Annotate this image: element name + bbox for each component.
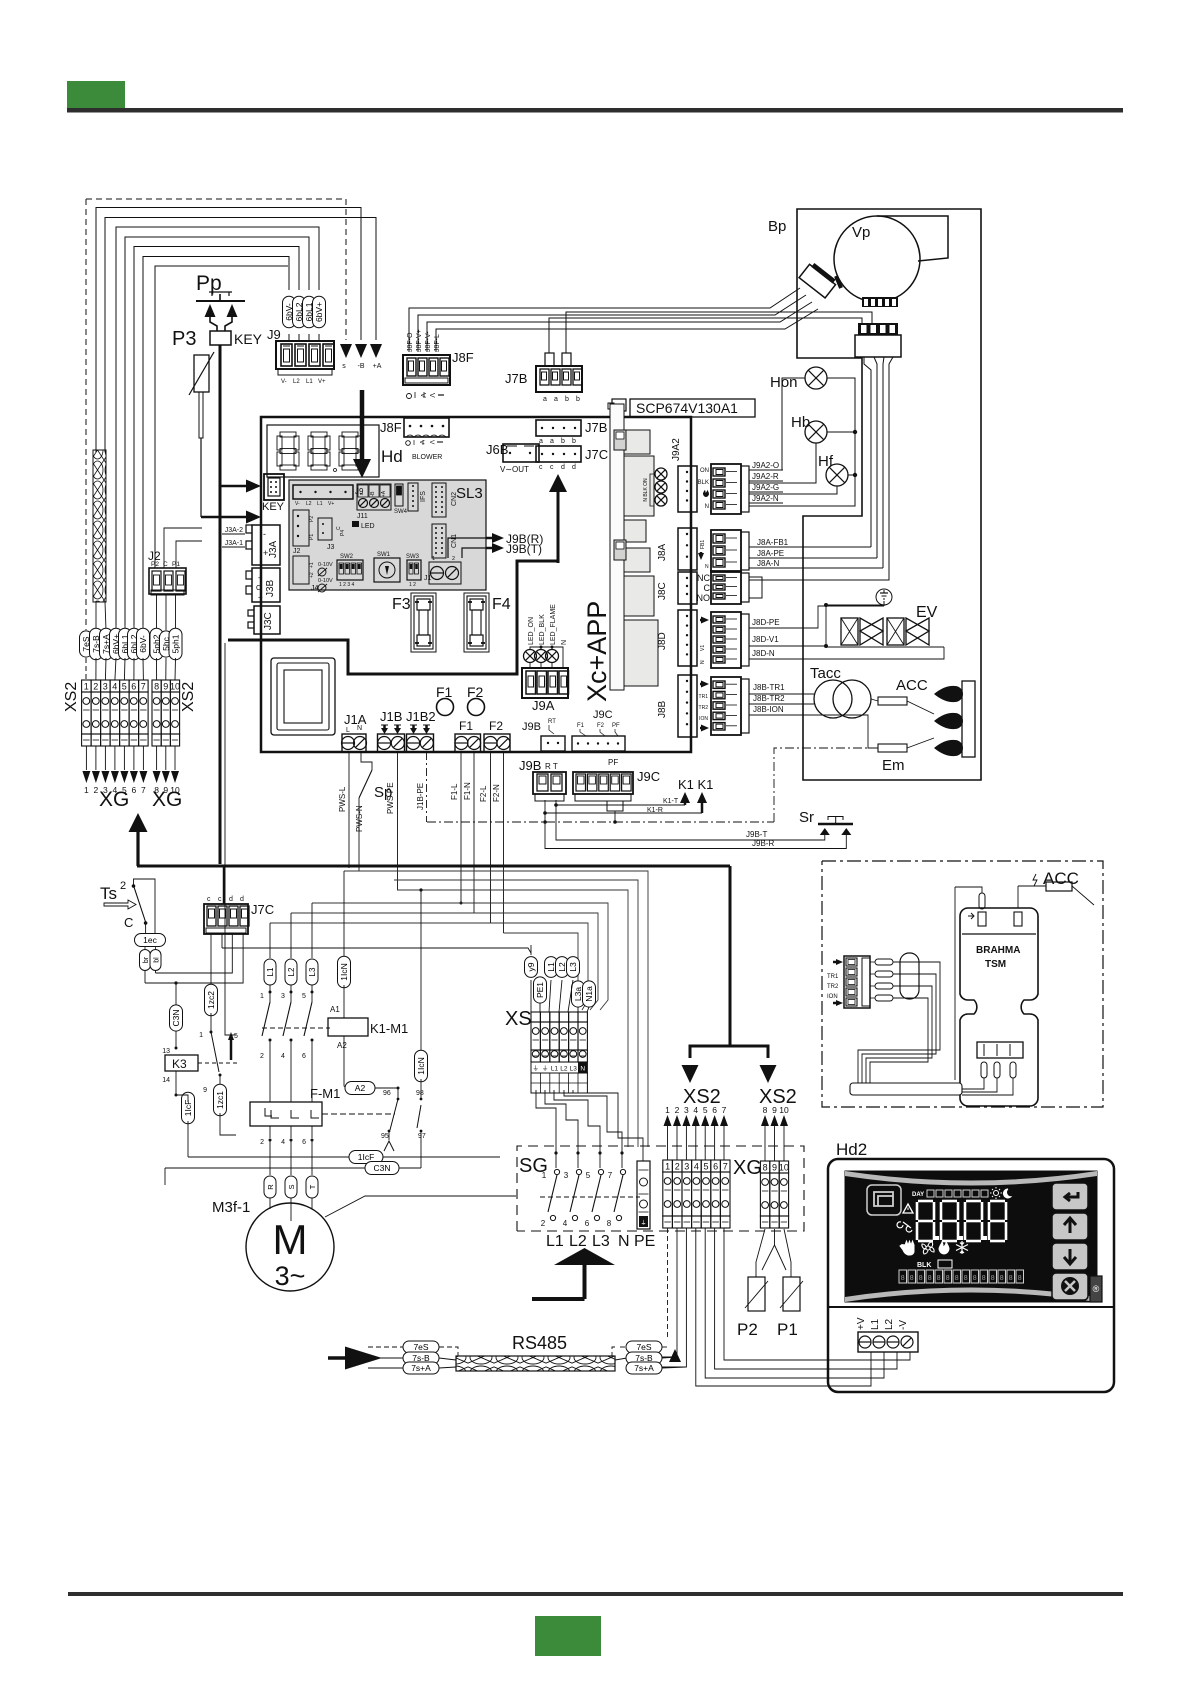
svg-text:Hf: Hf bbox=[818, 453, 834, 470]
wires J7C to K3/contactor bbox=[210, 988, 212, 991]
svg-text:2: 2 bbox=[93, 682, 98, 692]
svg-text:L: L bbox=[346, 727, 350, 734]
XG bottom group 8-10 bbox=[760, 1161, 769, 1173]
svg-text:Hb: Hb bbox=[791, 414, 810, 431]
fan inlet connector (slanted) bbox=[799, 261, 838, 298]
svg-text:S: S bbox=[287, 1184, 296, 1189]
svg-text:3: 3 bbox=[564, 1171, 569, 1180]
arrow s bbox=[340, 344, 352, 358]
J7C riser thick bbox=[223, 866, 226, 904]
svg-text:BLK: BLK bbox=[698, 480, 709, 486]
svg-text:K1-M1: K1-M1 bbox=[370, 1021, 408, 1036]
SL3 P1 P2 header (J2) bbox=[293, 510, 309, 546]
connector J8B (board edge) bbox=[678, 675, 697, 737]
svg-text:5: 5 bbox=[703, 1162, 708, 1172]
svg-text:1: 1 bbox=[432, 556, 435, 562]
svg-text:N1a: N1a bbox=[584, 986, 594, 1002]
fan lower connector block bbox=[858, 323, 898, 335]
svg-text:+V: +V bbox=[856, 1317, 867, 1330]
svg-text:-B: -B bbox=[370, 491, 376, 497]
wire 6bL1 top bundle bbox=[125, 237, 309, 625]
XS bottom wires to SG bbox=[536, 1090, 556, 1153]
svg-text:C: C bbox=[124, 915, 133, 930]
svg-text:0-10V: 0-10V bbox=[318, 578, 333, 584]
Hd digit 1 bbox=[280, 432, 296, 437]
svg-text:6bV+: 6bV+ bbox=[314, 302, 324, 322]
svg-text:N: N bbox=[700, 660, 706, 664]
oval 1zc1 bbox=[214, 1084, 227, 1116]
XG bottom group 1-7 bbox=[663, 1160, 673, 1172]
svg-text:J7B: J7B bbox=[505, 371, 527, 386]
svg-text:4: 4 bbox=[281, 1139, 285, 1146]
svg-text:d: d bbox=[229, 896, 233, 903]
svg-text:8: 8 bbox=[955, 1275, 959, 1282]
svg-text:F1: F1 bbox=[577, 723, 585, 729]
svg-text:+1: +1 bbox=[309, 562, 315, 568]
svg-text:N: N bbox=[580, 1066, 585, 1073]
svg-text:J9B(T): J9B(T) bbox=[506, 542, 542, 556]
svg-text:J3: J3 bbox=[327, 544, 335, 551]
svg-text:PE1: PE1 bbox=[535, 982, 545, 998]
P3 arrow into board bbox=[201, 516, 248, 519]
F-M1 dashed link bbox=[322, 1113, 395, 1115]
oval 6bL2 left column bbox=[133, 625, 135, 630]
svg-text:N: N bbox=[705, 504, 709, 510]
wire 7s-B top bundle bbox=[96, 208, 361, 453]
Hd digit 2 bbox=[311, 432, 327, 437]
svg-text:J4: J4 bbox=[311, 585, 319, 592]
svg-text:⏚: ⏚ bbox=[640, 1220, 646, 1227]
left XS2 group 8-10 bbox=[152, 680, 161, 692]
svg-text:V: V bbox=[428, 393, 435, 398]
svg-text:SW1: SW1 bbox=[377, 552, 391, 558]
XS strip ovals bbox=[525, 957, 538, 978]
svg-text:8: 8 bbox=[928, 1275, 932, 1282]
svg-text:P1: P1 bbox=[309, 534, 315, 540]
svg-text:c: c bbox=[218, 896, 222, 903]
svg-text:8: 8 bbox=[154, 682, 159, 692]
svg-text:L2: L2 bbox=[306, 501, 312, 507]
svg-text:LED_FLAME: LED_FLAME bbox=[550, 604, 557, 645]
svg-text:s: s bbox=[342, 363, 346, 370]
svg-text:J9A2-O: J9A2-O bbox=[752, 461, 779, 470]
svg-text:L2: L2 bbox=[884, 1318, 895, 1330]
module J8A external bbox=[711, 530, 741, 572]
svg-text:3: 3 bbox=[103, 682, 108, 692]
svg-text:1IcF: 1IcF bbox=[183, 1100, 193, 1117]
svg-text:V: V bbox=[419, 393, 426, 398]
fuse F4 bbox=[464, 593, 489, 652]
oval 1IcN right bbox=[420, 890, 422, 1053]
svg-text:d: d bbox=[572, 464, 576, 471]
svg-text:y9: y9 bbox=[526, 962, 536, 971]
oval 7s+A bbox=[105, 602, 106, 630]
label SCP674V130A1 bbox=[630, 399, 755, 417]
svg-text:1ec: 1ec bbox=[143, 935, 157, 945]
svg-text:F1: F1 bbox=[459, 719, 473, 733]
wire 6bL2 top bundle bbox=[134, 247, 299, 626]
svg-text:1: 1 bbox=[84, 785, 89, 795]
PE terminal column bbox=[637, 1161, 650, 1229]
svg-text:2: 2 bbox=[675, 1162, 680, 1172]
svg-text:4: 4 bbox=[563, 1219, 568, 1228]
svg-text:J8A: J8A bbox=[657, 543, 668, 561]
svg-text:R T: R T bbox=[545, 762, 558, 771]
Hd2 device outline bbox=[828, 1159, 1114, 1392]
SG dashed enclosure bbox=[517, 1146, 804, 1231]
svg-text:NC: NC bbox=[697, 573, 710, 583]
svg-text:1: 1 bbox=[84, 682, 89, 692]
Xc+APP column strip bbox=[610, 404, 624, 690]
svg-text:⏚: ⏚ bbox=[532, 1065, 539, 1073]
svg-text:J8D: J8D bbox=[657, 632, 668, 650]
svg-text:+2: +2 bbox=[309, 572, 315, 578]
svg-text:8: 8 bbox=[1000, 1275, 1004, 1282]
svg-text:CN1: CN1 bbox=[451, 534, 458, 548]
svg-text:3: 3 bbox=[684, 1105, 689, 1115]
Hd2 screen bezel bbox=[845, 1171, 1097, 1302]
EV wires bbox=[826, 605, 884, 646]
svg-text:BLOWER: BLOWER bbox=[412, 454, 442, 461]
svg-text:13: 13 bbox=[162, 1048, 170, 1055]
svg-text:6: 6 bbox=[713, 1162, 718, 1172]
ACC wires from connector to sleeve bbox=[858, 962, 940, 1083]
svg-text:Ts: Ts bbox=[100, 884, 117, 903]
connector J9A2 (board edge) bbox=[678, 466, 697, 512]
svg-text:ACC: ACC bbox=[896, 677, 928, 694]
svg-text:2: 2 bbox=[94, 785, 99, 795]
fan bottom pin comb bbox=[862, 297, 898, 307]
svg-text:b: b bbox=[561, 438, 565, 445]
svg-text:J1B2: J1B2 bbox=[406, 709, 436, 724]
svg-text:8: 8 bbox=[964, 1275, 968, 1282]
svg-text:ACC: ACC bbox=[1043, 869, 1079, 888]
svg-text:F2: F2 bbox=[467, 684, 484, 700]
oval 6bV- bbox=[283, 296, 296, 328]
svg-text:-B: -B bbox=[358, 363, 365, 370]
ACC connector labels bbox=[833, 961, 838, 964]
arrow up 7eS join bbox=[669, 1349, 681, 1362]
95 contact arrow bbox=[384, 1141, 394, 1151]
XG arrows below left XS2 bbox=[85, 746, 87, 770]
svg-text:XS: XS bbox=[505, 1008, 532, 1030]
svg-text:L2: L2 bbox=[560, 1066, 568, 1073]
fan motor hatch bbox=[836, 276, 841, 288]
resistor P2 bbox=[748, 1277, 765, 1311]
svg-text:L1: L1 bbox=[551, 1066, 559, 1073]
wires fan connector down bbox=[864, 357, 871, 547]
svg-text:1: 1 bbox=[542, 1171, 547, 1180]
thick bus XG to right bbox=[137, 865, 730, 868]
J7C wires down bbox=[210, 934, 212, 988]
svg-text:4: 4 bbox=[112, 682, 117, 692]
wire 6bV+ top bundle bbox=[116, 227, 319, 625]
svg-text:A2: A2 bbox=[355, 1083, 366, 1093]
connector J8D (board edge) bbox=[678, 610, 697, 666]
footer green block bbox=[535, 1616, 601, 1656]
ACC small ovals bbox=[875, 959, 893, 965]
svg-text:J7B: J7B bbox=[585, 420, 607, 435]
dashed K3 couple bbox=[198, 1062, 240, 1064]
F-M1 heater symbols bbox=[271, 1110, 279, 1118]
XG bus arrow up bbox=[136, 830, 139, 866]
svg-text:6: 6 bbox=[302, 1139, 306, 1146]
svg-text:J9A2: J9A2 bbox=[671, 438, 682, 461]
svg-text:R: R bbox=[266, 1184, 275, 1190]
svg-text:PF: PF bbox=[608, 758, 618, 767]
svg-text:DAY: DAY bbox=[912, 1192, 924, 1198]
svg-text:8: 8 bbox=[937, 1275, 941, 1282]
svg-text:L2: L2 bbox=[569, 1233, 587, 1250]
svg-text:RT: RT bbox=[548, 719, 556, 725]
svg-text:P2: P2 bbox=[309, 516, 315, 522]
J8C bracket bbox=[749, 577, 762, 598]
svg-text:5: 5 bbox=[302, 993, 306, 1000]
svg-text:8: 8 bbox=[973, 1275, 977, 1282]
svg-text:a: a bbox=[543, 396, 547, 403]
svg-text:V+: V+ bbox=[328, 501, 334, 507]
SL3 J11 screws s -B +A bbox=[357, 484, 391, 510]
svg-text:4: 4 bbox=[281, 1053, 285, 1060]
switch Sp bbox=[361, 752, 372, 770]
svg-text:d: d bbox=[561, 464, 565, 471]
svg-text:P1: P1 bbox=[777, 1320, 798, 1339]
svg-text:J1B-PE: J1B-PE bbox=[416, 783, 425, 810]
resistor P1 bbox=[783, 1277, 800, 1311]
svg-text:2: 2 bbox=[260, 1053, 264, 1060]
connector J7C (board) bbox=[536, 446, 581, 462]
svg-text:J8F: J8F bbox=[380, 420, 402, 435]
svg-text:J8F: J8F bbox=[452, 350, 474, 365]
svg-text:J3A-2: J3A-2 bbox=[225, 527, 243, 534]
wire 7s+A top bundle bbox=[105, 218, 376, 453]
svg-text:3~: 3~ bbox=[275, 1261, 306, 1291]
svg-text:V+: V+ bbox=[318, 379, 326, 385]
svg-text:J9A: J9A bbox=[532, 698, 555, 713]
svg-text:1: 1 bbox=[665, 1162, 670, 1172]
svg-text:XG: XG bbox=[99, 788, 129, 811]
SL3 module board bbox=[289, 480, 486, 590]
svg-text:TR1: TR1 bbox=[699, 694, 709, 700]
svg-text:br: br bbox=[143, 956, 150, 963]
wire 7eS (dashed) top bundle bbox=[86, 199, 346, 340]
svg-text:2: 2 bbox=[541, 1219, 546, 1228]
svg-text:8: 8 bbox=[763, 1163, 768, 1173]
svg-text:F1: F1 bbox=[436, 684, 453, 700]
svg-text:P4: P4 bbox=[340, 530, 346, 536]
svg-text:XG: XG bbox=[152, 788, 182, 811]
XS strip wire stubs bbox=[530, 980, 532, 1012]
svg-text:Hon: Hon bbox=[770, 374, 798, 391]
svg-text:2: 2 bbox=[120, 880, 126, 892]
SL3 SW3 bbox=[407, 560, 421, 580]
connector J8A (board edge) bbox=[678, 528, 697, 570]
svg-text:8: 8 bbox=[982, 1275, 986, 1282]
svg-text:IFS: IFS bbox=[420, 491, 427, 502]
svg-text:Hd: Hd bbox=[381, 447, 403, 466]
svg-text:SW3: SW3 bbox=[406, 554, 420, 560]
svg-text:8: 8 bbox=[910, 1275, 914, 1282]
P2 P1 wires bbox=[756, 1229, 765, 1277]
svg-text:0-10V: 0-10V bbox=[318, 562, 333, 568]
main board outline bbox=[261, 417, 691, 752]
J9A2 mini lamps bbox=[655, 468, 667, 480]
svg-text:10: 10 bbox=[779, 1163, 789, 1173]
svg-text:2: 2 bbox=[452, 556, 455, 562]
svg-text:M: M bbox=[273, 1216, 308, 1263]
svg-text:T: T bbox=[308, 1184, 317, 1189]
svg-text:J3A-1: J3A-1 bbox=[225, 540, 243, 547]
svg-text:Vp: Vp bbox=[852, 224, 870, 241]
svg-text:J7C: J7C bbox=[585, 447, 608, 462]
svg-text:5: 5 bbox=[586, 1171, 591, 1180]
svg-text:BRAHMA: BRAHMA bbox=[976, 945, 1020, 956]
svg-text:+: + bbox=[258, 593, 263, 602]
J9B(R)/J9B(T) arrows bbox=[448, 538, 490, 558]
svg-text:L3: L3 bbox=[570, 1066, 578, 1073]
oval 1ec (horizontal) bbox=[135, 934, 166, 947]
svg-text:CN2: CN2 bbox=[451, 492, 458, 506]
svg-text:L1: L1 bbox=[546, 1233, 564, 1250]
svg-text:Tacc: Tacc bbox=[810, 665, 841, 682]
svg-text:L1: L1 bbox=[317, 501, 323, 507]
svg-text:1: 1 bbox=[199, 1032, 203, 1039]
svg-text:1zc1: 1zc1 bbox=[215, 1091, 225, 1109]
svg-text:F2: F2 bbox=[489, 719, 503, 733]
svg-text:c: c bbox=[539, 464, 543, 471]
svg-text:8: 8 bbox=[607, 1219, 612, 1228]
display Hd (3x 7-segment) bbox=[267, 425, 379, 477]
svg-text:F1-L: F1-L bbox=[450, 783, 459, 800]
svg-text:8: 8 bbox=[991, 1275, 995, 1282]
svg-text:Xc+APP: Xc+APP bbox=[582, 601, 612, 702]
svg-text:J9B: J9B bbox=[519, 758, 541, 773]
bus wires from board to lower section bbox=[344, 871, 648, 1147]
svg-text:a: a bbox=[539, 438, 543, 445]
svg-text:7: 7 bbox=[723, 1162, 728, 1172]
SL3 IFS header bbox=[408, 483, 418, 511]
header green logo block bbox=[67, 81, 125, 108]
oval A2 bbox=[345, 1082, 375, 1095]
arrow +A bbox=[370, 344, 382, 358]
RS485 left arrow bbox=[328, 1356, 346, 1360]
SL3 SW4 bbox=[395, 484, 403, 506]
svg-text:7eS: 7eS bbox=[636, 1342, 651, 1352]
svg-text:XG: XG bbox=[733, 1157, 762, 1179]
svg-text:J7C: J7C bbox=[251, 902, 274, 917]
svg-text:F-M1: F-M1 bbox=[310, 1086, 340, 1101]
warn/wrench icons bbox=[903, 1204, 913, 1213]
svg-text:8: 8 bbox=[763, 1105, 768, 1115]
SG dashed coupling bbox=[540, 1196, 640, 1198]
XS terminal columns bbox=[531, 1012, 540, 1022]
svg-text:J8A-N: J8A-N bbox=[757, 559, 779, 568]
left vertical thin wire x225 bbox=[225, 643, 236, 1035]
svg-text:bl: bl bbox=[154, 957, 161, 963]
svg-text:-V: -V bbox=[898, 1320, 909, 1330]
svg-text:1 2 3 4: 1 2 3 4 bbox=[339, 582, 355, 588]
J7B wires to blower connector bbox=[549, 318, 862, 353]
oval 1IcN bbox=[343, 871, 345, 959]
svg-text:d: d bbox=[240, 896, 244, 903]
arrow to XS2 8-10 bbox=[760, 1065, 777, 1083]
oval 6bV- left column bbox=[142, 625, 144, 630]
svg-text:TR2: TR2 bbox=[827, 984, 839, 990]
svg-text:V-: V- bbox=[295, 501, 300, 507]
svg-text:J3A: J3A bbox=[268, 540, 279, 558]
oval 6bV+ left column bbox=[115, 625, 117, 630]
svg-text:TSM: TSM bbox=[985, 959, 1006, 970]
svg-text:M3f-1: M3f-1 bbox=[212, 1199, 250, 1216]
svg-text:V: V bbox=[418, 440, 425, 445]
relay details bbox=[614, 430, 626, 450]
thick KEY wire bbox=[219, 345, 222, 864]
TSM top pins bbox=[978, 912, 986, 926]
svg-text:C: C bbox=[704, 583, 711, 593]
svg-text:8: 8 bbox=[901, 1275, 905, 1282]
RS485 right ovals bbox=[615, 1358, 627, 1360]
svg-text:KEY: KEY bbox=[234, 331, 263, 347]
svg-text:PWS-L: PWS-L bbox=[338, 786, 347, 812]
SL3 CN1 bbox=[432, 524, 446, 558]
Hd digit 3 bbox=[342, 432, 358, 437]
svg-text:PF: PF bbox=[612, 723, 620, 729]
flame electrodes bbox=[934, 686, 963, 702]
svg-text:C: C bbox=[256, 585, 261, 592]
svg-text:F2-N: F2-N bbox=[492, 784, 501, 802]
svg-text:-: - bbox=[263, 529, 266, 539]
TSM bottom connector bbox=[977, 1042, 1023, 1058]
svg-text:BLK: BLK bbox=[917, 1262, 931, 1269]
svg-text:XS2: XS2 bbox=[180, 682, 197, 712]
svg-text:P1: P1 bbox=[172, 561, 180, 568]
wire 6bV- top bundle bbox=[143, 257, 289, 626]
svg-text:PWS-PE: PWS-PE bbox=[386, 782, 395, 814]
ACC resistor in box bbox=[1046, 882, 1072, 891]
thick arrow into SL3 from top bbox=[360, 390, 365, 460]
svg-text:NO: NO bbox=[697, 593, 711, 603]
J9A LEDs bbox=[524, 650, 537, 663]
oval 1IcF / C3N bottom bbox=[188, 1156, 350, 1158]
svg-text:N: N bbox=[705, 564, 709, 570]
svg-text:Sr: Sr bbox=[799, 809, 814, 826]
svg-text:J8F-V-: J8F-V- bbox=[425, 331, 432, 352]
svg-text:EV: EV bbox=[916, 604, 938, 621]
svg-text:J3C: J3C bbox=[263, 612, 274, 630]
membrane button square bbox=[271, 658, 335, 735]
svg-text:4: 4 bbox=[693, 1105, 698, 1115]
svg-text:P2: P2 bbox=[737, 1320, 758, 1339]
svg-text:9: 9 bbox=[772, 1163, 777, 1173]
svg-text:+A: +A bbox=[373, 363, 382, 370]
wires F-M1 to motor bbox=[269, 1056, 271, 1102]
svg-text:a: a bbox=[550, 438, 554, 445]
svg-text:9: 9 bbox=[203, 1087, 207, 1094]
Hd2 segment row bbox=[899, 1270, 907, 1283]
svg-text:L3: L3 bbox=[592, 1233, 610, 1250]
svg-text:LED: LED bbox=[361, 523, 375, 530]
ovals R S T bbox=[264, 1176, 276, 1198]
SL3 CN2 bbox=[432, 483, 446, 517]
wire J1B-PE dash-dot bbox=[426, 752, 428, 822]
svg-text:6: 6 bbox=[132, 785, 137, 795]
ovals br bl bbox=[144, 947, 146, 950]
svg-text:V: V bbox=[428, 440, 435, 445]
svg-text:7: 7 bbox=[608, 1171, 613, 1180]
oval 6bL1 bbox=[303, 296, 316, 328]
svg-text:SW2: SW2 bbox=[340, 554, 354, 560]
svg-text:6: 6 bbox=[585, 1219, 590, 1228]
